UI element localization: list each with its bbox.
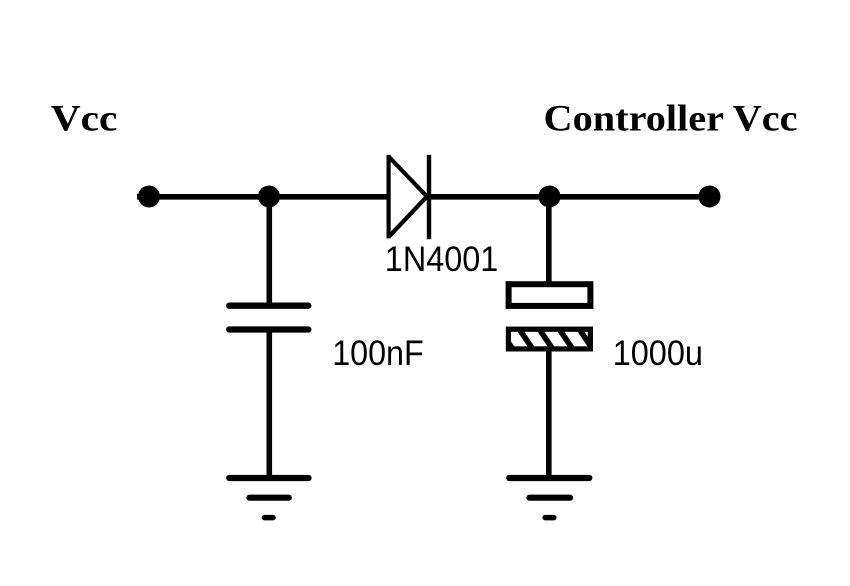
wire: junction down to C1 top plate [266,197,272,304]
svg-text:Vcc: Vcc [51,99,118,140]
wire: junction down to C2 top plate [546,197,552,285]
svg-text:1000u: 1000u [613,333,703,373]
svg-text:1N4001: 1N4001 [385,239,499,279]
capacitor C2 1000u electrolytic: positive plate (hatched box) [496,324,596,354]
net label Vcc [51,99,118,140]
capacitor C1 100nF (two plates) [229,306,308,330]
node: Controller Vcc terminal dot [699,186,721,208]
wire: main horizontal, Vcc terminal to diode anode [137,194,389,200]
node: Vcc terminal dot [138,186,160,208]
node: junction dot at 1000u branch [539,186,561,208]
label: diode value 1N4001 [385,239,499,279]
label: C1 value 100nF [332,333,424,373]
wire: C2 bottom plate down to ground [546,349,552,476]
node: junction dot at 100nF branch [258,186,280,208]
svg-text:100nF: 100nF [332,333,424,373]
capacitor C2 1000u electrolytic: negative plate (hollow box) [509,284,591,306]
ground (left, below C1) [229,478,308,518]
wire: C1 bottom plate down to ground [266,330,272,476]
svg-text:Controller Vcc: Controller Vcc [544,99,798,140]
diode D1 (triangle anode + cathode bar) [389,155,429,239]
wire: diode cathode to Controller Vcc terminal [429,194,710,200]
ground (right, below C2) [509,478,589,518]
net label Controller Vcc [544,99,798,140]
label: C2 value 1000u [613,333,703,373]
